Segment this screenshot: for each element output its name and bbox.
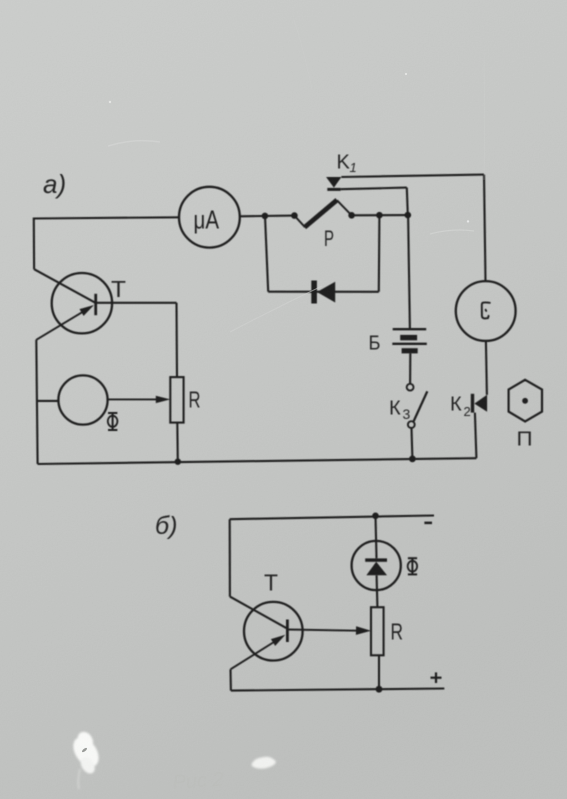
node top (b)	[372, 513, 379, 520]
minus terminal	[424, 522, 432, 525]
wire K1 top line to C	[341, 175, 484, 177]
lamp F circle	[58, 375, 107, 424]
wire F left link	[37, 400, 58, 402]
letter C (drawn)	[482, 302, 490, 318]
plus terminal	[431, 672, 442, 683]
wire node to battery	[408, 215, 410, 329]
emitter wire down (b)	[229, 669, 231, 690]
bottom wire (b)	[231, 689, 444, 691]
node bottom (b)	[376, 686, 383, 693]
node R-bottom	[175, 459, 181, 465]
node K3-bottom	[409, 456, 416, 463]
wire left vertical upper	[33, 218, 35, 270]
contact K1	[326, 177, 341, 188]
wire top-left horizontal	[34, 217, 179, 218]
transistor T (b)	[244, 602, 303, 661]
MAIN INK GROUP	[34, 152, 543, 693]
blob speck	[81, 747, 87, 753]
label F (b)	[408, 558, 417, 574]
potentiometer R (a)	[170, 377, 183, 423]
base arrow to R (b)	[287, 630, 358, 631]
transistor T	[52, 273, 112, 333]
diode D	[311, 281, 317, 304]
contact K2	[471, 394, 474, 413]
wire collector diagonal	[34, 269, 95, 302]
wiper arrow to R	[108, 398, 158, 400]
left wire (b)	[229, 519, 231, 596]
switch K3	[407, 384, 414, 391]
potentiometer R (b)	[371, 607, 384, 655]
wire C to K2	[486, 341, 487, 395]
photo-head P hexagon	[509, 380, 542, 422]
switch P blade	[294, 216, 305, 228]
main wire uA to contacts	[240, 215, 295, 218]
label F (a)	[108, 413, 118, 430]
node diode-right	[376, 212, 383, 219]
node P-left	[291, 212, 298, 219]
battery B	[393, 328, 427, 330]
node diode-left	[262, 213, 269, 220]
wire emitter down-left vertical	[36, 340, 37, 464]
white blob left-bottom	[65, 729, 275, 789]
wire battery to K3	[409, 353, 411, 384]
faint scratches	[108, 20, 485, 332]
top wire (b)	[230, 516, 434, 520]
wire base to R column	[96, 302, 177, 304]
lamp C	[456, 281, 516, 341]
meter uA	[179, 187, 240, 248]
collector diagonal (b)	[230, 597, 287, 629]
bottom wire (a)	[38, 458, 477, 464]
node battery-top	[405, 212, 412, 219]
wire K1 bar line to node	[341, 188, 407, 190]
node P-right	[348, 212, 355, 219]
diode loop	[265, 216, 268, 292]
photodiode F (b)	[376, 516, 377, 559]
